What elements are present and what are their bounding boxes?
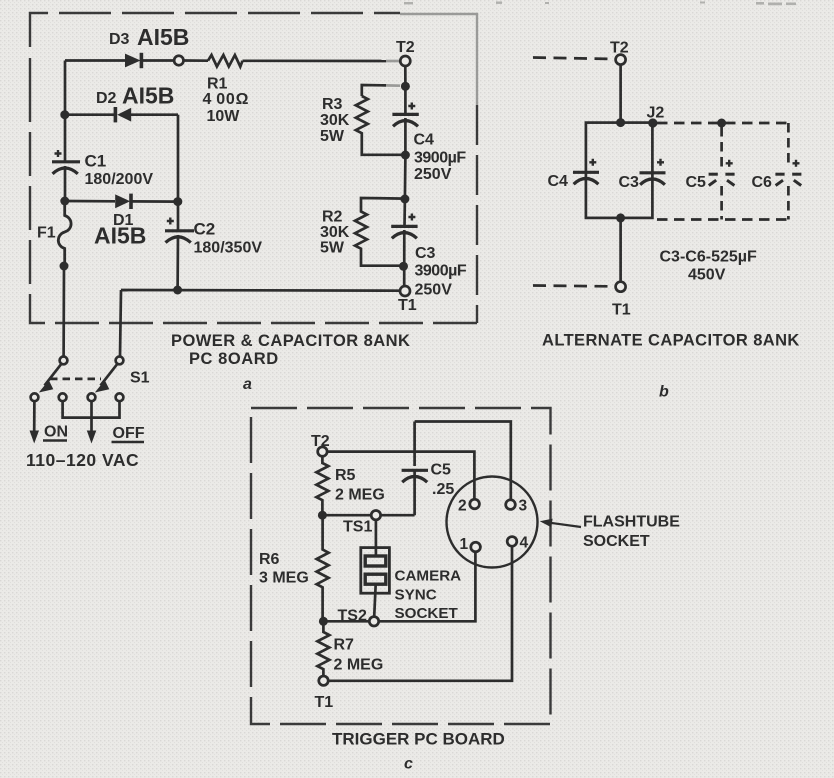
svg-text:ALTERNATE CAPACITOR 8ANK: ALTERNATE CAPACITOR 8ANK (542, 332, 800, 350)
svg-text:3 MEG: 3 MEG (259, 570, 309, 587)
svg-text:R6: R6 (259, 551, 280, 568)
resistor R3 (356, 85, 406, 155)
wire bottom rail (120, 290, 400, 357)
svg-text:T1: T1 (315, 694, 334, 711)
socket pin 1 (471, 542, 481, 552)
wire TS1 to C5 branch (381, 514, 415, 517)
capacitor C5 (b) dashed symbol (709, 160, 735, 186)
svg-text:3900µF: 3900µF (415, 263, 467, 280)
svg-text:C5: C5 (431, 462, 452, 479)
svg-text:180/200V: 180/200V (85, 171, 154, 188)
svg-text:D2: D2 (96, 90, 117, 107)
wire left rail (64, 61, 67, 202)
wire dashed top extension to C5 C6 (657, 122, 788, 125)
svg-text:10W: 10W (207, 108, 241, 125)
svg-text:4: 4 (520, 535, 529, 552)
wire dashed C6 branch (787, 123, 790, 220)
svg-text:250V: 250V (414, 166, 452, 183)
svg-text:4 00Ω: 4 00Ω (203, 91, 250, 108)
node junction D1-rail (60, 197, 69, 206)
wire dashed lead T1 (b) (533, 284, 615, 288)
wire mid (404, 155, 407, 199)
node J2 (648, 118, 657, 127)
node connector on top rail (174, 56, 183, 65)
wire C5 branch and upper run to pin3 (415, 422, 511, 516)
capacitor C1 (52, 150, 80, 174)
capacitor C5 (c) (402, 470, 428, 482)
svg-text:2 MEG: 2 MEG (335, 487, 385, 504)
wire ON underline (43, 439, 67, 441)
svg-text:c: c (404, 756, 413, 773)
svg-text:C3: C3 (415, 245, 436, 262)
svg-text:C6: C6 (752, 174, 773, 191)
wire bank to T1 (b) (619, 218, 622, 282)
svg-text:110–120 VAC: 110–120 VAC (26, 450, 139, 470)
diode D2 (114, 107, 132, 122)
svg-text:5W: 5W (320, 128, 345, 145)
node junction TS1 (318, 511, 327, 520)
node junction R2-C3 bottom (399, 262, 408, 271)
svg-text:30K: 30K (320, 224, 350, 241)
node junction C4-R3 bottom (401, 151, 410, 160)
svg-text:F1: F1 (37, 225, 56, 242)
wire junction to TS2 terminal (323, 620, 369, 623)
svg-text:TS2: TS2 (338, 608, 367, 625)
svg-text:J2: J2 (647, 105, 665, 122)
svg-text:PC 8OARD: PC 8OARD (189, 350, 279, 368)
svg-text:R1: R1 (207, 76, 228, 93)
node junction bank top (616, 118, 625, 127)
svg-text:C1: C1 (85, 152, 107, 171)
svg-text:T2: T2 (396, 39, 415, 56)
terminal TS1 (371, 511, 380, 520)
svg-text:T1: T1 (612, 302, 631, 319)
svg-text:TS1: TS1 (343, 519, 372, 536)
box outline POWER & CAPACITOR BANK PC BOARD (30, 13, 477, 323)
wire dashed lead T2 (b) (533, 58, 615, 60)
SECTION B LABELS (542, 40, 800, 401)
resistor R7 (317, 621, 329, 676)
svg-text:ON: ON (44, 424, 68, 441)
svg-text:D3: D3 (109, 31, 130, 48)
resistor R1 (208, 55, 243, 67)
svg-text:.25: .25 (432, 481, 454, 498)
wire D1 branch (65, 200, 178, 203)
wire rail to switch (62, 266, 65, 356)
capacitor C3 (b) (640, 159, 666, 185)
svg-text:SYNC: SYNC (395, 587, 437, 604)
node junction D1-C2 (173, 197, 182, 206)
svg-text:C3: C3 (619, 174, 640, 191)
flashtube socket circle (447, 477, 538, 568)
fuse F1 (58, 201, 71, 266)
switch arm arrowheads S1 (30, 380, 110, 443)
svg-text:C3-C6-525µF: C3-C6-525µF (660, 249, 757, 266)
node junction D2-rail (60, 110, 69, 119)
svg-text:250V: 250V (415, 282, 453, 299)
svg-text:FLASHTUBE: FLASHTUBE (583, 514, 680, 531)
node junction T2-C4-R3 (401, 82, 410, 91)
wire junction to TS1 terminal (322, 514, 371, 517)
svg-text:5W: 5W (320, 240, 345, 257)
svg-text:SOCKET: SOCKET (395, 605, 459, 622)
capacitor C2 (165, 202, 194, 290)
svg-text:C2: C2 (194, 220, 216, 239)
resistor R5 (316, 456, 328, 515)
svg-text:AI5B: AI5B (94, 223, 146, 249)
svg-text:T1: T1 (398, 297, 417, 314)
svg-text:3900µF: 3900µF (414, 150, 466, 167)
svg-text:2: 2 (458, 498, 467, 515)
terminal TS2 (369, 617, 378, 626)
wire capacitor bank rectangle (586, 123, 653, 218)
svg-text:R7: R7 (334, 637, 355, 654)
socket pin 2 (470, 499, 480, 509)
terminal T1 (c) (319, 676, 328, 685)
svg-text:a: a (243, 376, 252, 393)
svg-text:3: 3 (519, 498, 528, 515)
svg-text:AI5B: AI5B (122, 83, 174, 109)
wire dashed C5 branch (720, 127, 723, 220)
faint page-top text specks (404, 2, 796, 6)
svg-text:TRIGGER PC BOARD: TRIGGER PC BOARD (332, 730, 505, 749)
wire OFF underline (112, 441, 145, 443)
diode D3 (125, 53, 143, 68)
wire T2 to C4 (404, 66, 407, 86)
svg-text:T2: T2 (311, 433, 330, 450)
SECTION C LABELS (259, 433, 680, 773)
svg-text:R5: R5 (335, 467, 356, 484)
wire top rail (65, 59, 386, 62)
svg-text:C4: C4 (548, 173, 569, 190)
box outline TRIGGER PC BOARD (251, 408, 551, 724)
wire TS2 to pin1 branch (379, 552, 476, 622)
svg-text:POWER & CAPACITOR 8ANK: POWER & CAPACITOR 8ANK (171, 332, 410, 350)
svg-text:b: b (659, 384, 669, 401)
svg-text:2 MEG: 2 MEG (334, 657, 384, 674)
wire T2 top run to pin2 branch (327, 452, 474, 500)
socket pin 4 (507, 537, 517, 547)
terminal T2 (400, 56, 410, 66)
wire D2 branch (65, 115, 178, 202)
resistor R2 (355, 198, 405, 266)
node junction below F1 (60, 262, 69, 271)
node junction C5 branch (717, 119, 726, 128)
svg-text:C5: C5 (686, 174, 707, 191)
socket pin 3 (506, 500, 516, 510)
terminal T2 (c) (318, 447, 327, 456)
switch S1 (31, 357, 124, 434)
resistor R6 (317, 515, 329, 621)
terminal T1 (b) (616, 282, 626, 292)
node junction TS2 (319, 617, 328, 626)
svg-text:30K: 30K (320, 112, 350, 129)
svg-text:CAMERA: CAMERA (395, 568, 462, 585)
svg-text:R2: R2 (322, 209, 343, 226)
terminal T1 (400, 286, 410, 296)
capacitor C4 (392, 86, 418, 155)
svg-text:180/350V: 180/350V (194, 240, 263, 257)
wire dashed bottom extension (657, 218, 788, 221)
svg-text:R3: R3 (322, 96, 343, 113)
SECTION A LABELS (26, 24, 467, 470)
svg-text:OFF: OFF (113, 425, 145, 442)
svg-text:SOCKET: SOCKET (583, 533, 650, 550)
svg-text:T2: T2 (610, 40, 629, 57)
diode D1 (115, 194, 133, 209)
node junction bank bottom (616, 213, 625, 222)
capacitor C4 (b) (573, 159, 599, 184)
svg-text:450V: 450V (688, 267, 726, 284)
svg-text:S1: S1 (130, 370, 150, 387)
wire T2 to bank (619, 65, 622, 123)
capacitor C6 (b) dashed symbol (775, 160, 801, 186)
camera sync socket symbol (361, 520, 390, 617)
flashtube pointer arrow (540, 519, 581, 528)
node junction C2-bottom (173, 286, 182, 295)
svg-text:AI5B: AI5B (137, 24, 189, 50)
wire gray segment to T2 (386, 60, 400, 63)
svg-text:C4: C4 (414, 132, 435, 149)
wire T1 run to pin4 branch (328, 546, 512, 681)
node junction R2-C3 top (400, 195, 409, 204)
svg-text:1: 1 (460, 536, 469, 553)
capacitor C3 (391, 199, 417, 287)
terminal T2 (b) (616, 55, 626, 65)
